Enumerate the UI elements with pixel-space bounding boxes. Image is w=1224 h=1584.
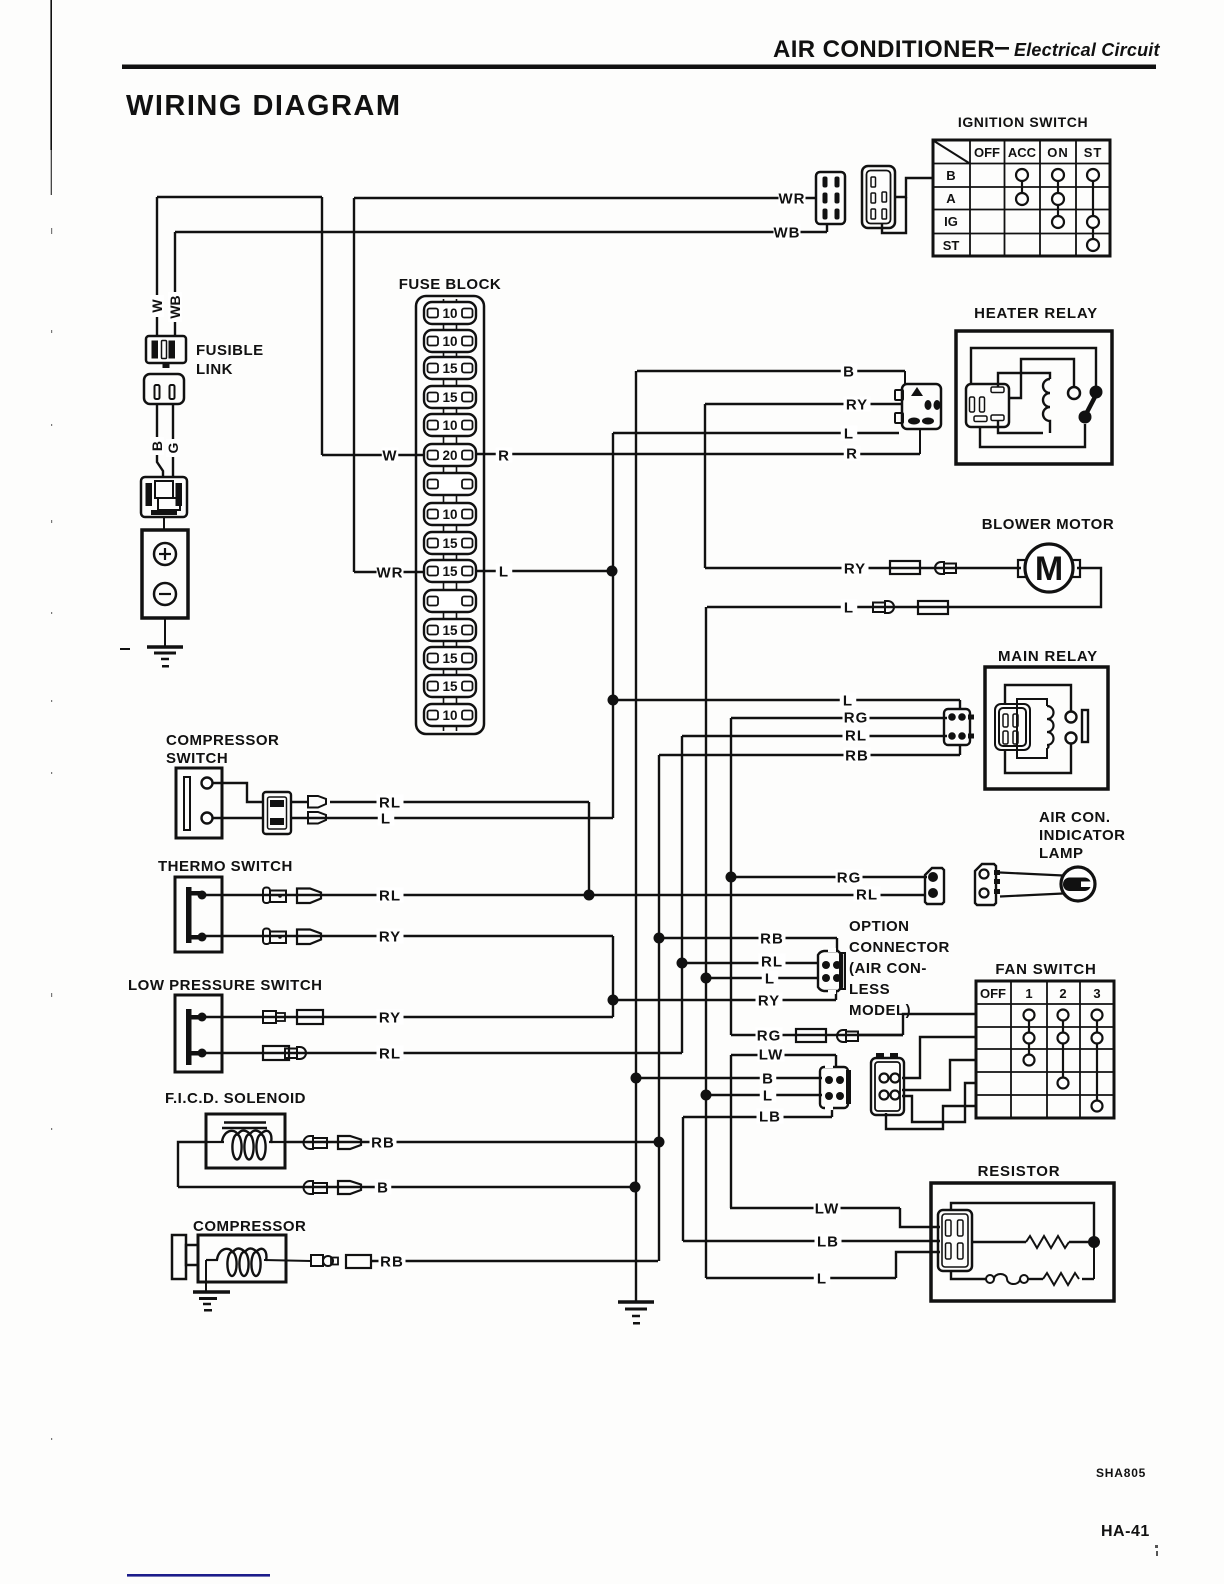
svg-text:B: B: [946, 168, 955, 183]
svg-text:IGNITION SWITCH: IGNITION SWITCH: [958, 114, 1088, 130]
svg-text:MAIN RELAY: MAIN RELAY: [998, 648, 1098, 665]
svg-text:15: 15: [442, 651, 458, 666]
svg-text:RL: RL: [379, 1045, 401, 1062]
svg-text:R: R: [846, 445, 858, 462]
svg-text:RG: RG: [837, 869, 862, 886]
svg-text:WB: WB: [774, 224, 801, 241]
svg-text:Electrical Circuit: Electrical Circuit: [1014, 40, 1160, 60]
svg-text:W: W: [382, 447, 397, 464]
svg-text:L: L: [765, 970, 775, 987]
svg-text:(AIR CON-: (AIR CON-: [849, 960, 927, 977]
svg-text:INDICATOR: INDICATOR: [1039, 827, 1125, 844]
svg-text:FUSIBLE: FUSIBLE: [196, 342, 264, 359]
svg-text:COMPRESSOR: COMPRESSOR: [193, 1218, 306, 1235]
svg-text:SHA805: SHA805: [1096, 1466, 1146, 1480]
svg-text:RL: RL: [761, 953, 783, 970]
svg-text:RG: RG: [844, 709, 869, 726]
svg-text:10: 10: [442, 334, 457, 349]
svg-text:FUSE BLOCK: FUSE BLOCK: [399, 276, 502, 293]
svg-text:CONNECTOR: CONNECTOR: [849, 939, 950, 956]
svg-text:SWITCH: SWITCH: [166, 750, 228, 767]
svg-text:R: R: [498, 447, 510, 464]
svg-text:L: L: [844, 599, 854, 616]
svg-text:F.I.C.D. SOLENOID: F.I.C.D. SOLENOID: [165, 1090, 306, 1107]
svg-text:RY: RY: [846, 396, 868, 413]
svg-text:OPTION: OPTION: [849, 918, 910, 935]
svg-text:RY: RY: [844, 560, 866, 577]
svg-text:G: G: [165, 442, 181, 453]
svg-text:W: W: [149, 299, 165, 313]
svg-text:10: 10: [442, 306, 457, 321]
svg-text:RB: RB: [760, 930, 784, 947]
svg-text:RL: RL: [379, 887, 401, 904]
svg-text:WIRING DIAGRAM: WIRING DIAGRAM: [126, 90, 402, 122]
svg-text:LESS: LESS: [849, 981, 890, 998]
svg-text:L: L: [381, 810, 391, 827]
svg-text:RB: RB: [845, 747, 869, 764]
svg-text:HA-41: HA-41: [1101, 1523, 1150, 1540]
svg-text:AIR CON.: AIR CON.: [1039, 809, 1111, 826]
svg-text:10: 10: [442, 708, 457, 723]
svg-text:WR: WR: [377, 564, 404, 581]
svg-text:ST: ST: [1084, 145, 1103, 160]
svg-text:B: B: [149, 441, 165, 451]
svg-text:L: L: [843, 692, 853, 709]
svg-text:AIR CONDITIONER: AIR CONDITIONER: [773, 36, 995, 63]
svg-text:B: B: [377, 1179, 389, 1196]
svg-text:RL: RL: [845, 727, 867, 744]
svg-text:IG: IG: [944, 214, 958, 229]
svg-text:15: 15: [442, 564, 458, 579]
svg-text:15: 15: [442, 361, 458, 376]
svg-text:10: 10: [442, 507, 457, 522]
svg-text:OFF: OFF: [980, 986, 1006, 1001]
svg-text:ACC: ACC: [1008, 145, 1037, 160]
svg-text:WR: WR: [779, 190, 806, 207]
svg-text:LAMP: LAMP: [1039, 845, 1084, 862]
svg-text:LB: LB: [759, 1108, 781, 1125]
svg-text:LW: LW: [759, 1046, 784, 1063]
svg-text:LB: LB: [817, 1233, 839, 1250]
svg-text:RY: RY: [758, 992, 780, 1009]
svg-text:RY: RY: [379, 928, 401, 945]
svg-text:B: B: [762, 1070, 774, 1087]
svg-text:3: 3: [1093, 986, 1100, 1001]
svg-text:RG: RG: [757, 1027, 782, 1044]
svg-text:RL: RL: [379, 794, 401, 811]
svg-text:WB: WB: [167, 295, 183, 318]
svg-text:L: L: [844, 425, 854, 442]
svg-text:RB: RB: [371, 1134, 395, 1151]
svg-text:THERMO SWITCH: THERMO SWITCH: [158, 858, 293, 875]
svg-text:L: L: [817, 1270, 827, 1287]
svg-text:RB: RB: [380, 1253, 404, 1270]
svg-text:LW: LW: [815, 1200, 840, 1217]
svg-text:2: 2: [1059, 986, 1066, 1001]
svg-text:15: 15: [442, 390, 458, 405]
svg-text:10: 10: [442, 418, 457, 433]
svg-text:20: 20: [442, 448, 457, 463]
svg-text:RESISTOR: RESISTOR: [978, 1163, 1061, 1180]
svg-text:15: 15: [442, 623, 458, 638]
svg-text:FAN SWITCH: FAN SWITCH: [995, 961, 1096, 978]
svg-text:ON: ON: [1047, 145, 1069, 160]
svg-text:RL: RL: [856, 886, 878, 903]
svg-text:HEATER RELAY: HEATER RELAY: [974, 305, 1098, 322]
svg-text:MODEL): MODEL): [849, 1002, 911, 1019]
svg-text:M: M: [1035, 550, 1063, 588]
svg-text:A: A: [946, 191, 956, 206]
svg-text:1: 1: [1025, 986, 1032, 1001]
svg-text:L: L: [763, 1087, 773, 1104]
svg-text:B: B: [843, 363, 855, 380]
svg-text:BLOWER MOTOR: BLOWER MOTOR: [982, 516, 1114, 533]
svg-text:15: 15: [442, 536, 458, 551]
svg-text:OFF: OFF: [974, 145, 1000, 160]
svg-text:L: L: [499, 563, 509, 580]
svg-text:LOW PRESSURE SWITCH: LOW PRESSURE SWITCH: [128, 977, 323, 994]
svg-text:ST: ST: [943, 238, 960, 253]
svg-text:15: 15: [442, 679, 458, 694]
svg-text:RY: RY: [379, 1009, 401, 1026]
svg-text:LINK: LINK: [196, 361, 233, 378]
svg-text:COMPRESSOR: COMPRESSOR: [166, 732, 279, 749]
